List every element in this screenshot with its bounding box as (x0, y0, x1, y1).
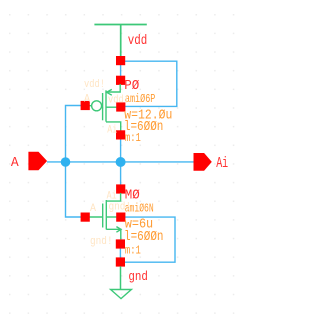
P0 gate bar (102, 93, 104, 120)
P0 bulk lead (106, 106, 117, 108)
P0 channel bar (105, 90, 107, 121)
ground (120, 266, 122, 289)
pin square: PMOS gate (81, 101, 90, 110)
pin square: NMOS bulk (116, 213, 125, 222)
wire: NMOS source to gnd square (119, 244, 121, 262)
M0 bulk lead (106, 216, 117, 218)
svg-text:m:1: m:1 (125, 243, 141, 257)
wire: A pin to junctions row (47, 161, 194, 163)
M0 gate lead (85, 216, 103, 218)
wire: output junction to NMOS drain (120, 162, 122, 189)
pin square: gnd connection (116, 257, 125, 266)
svg-text:A: A (84, 93, 90, 105)
wire: PMOS drain to output junction (120, 135, 122, 162)
pin square: PMOS bulk (116, 102, 125, 111)
P0 source arrow (107, 89, 112, 95)
svg-text:Ai: Ai (107, 190, 117, 202)
M0 gate bar (102, 204, 104, 228)
svg-text:vdd!: vdd! (84, 79, 105, 91)
node Ai output pin (194, 153, 212, 171)
wire: NMOS bulk loop to gnd (120, 217, 175, 262)
svg-text:vdd: vdd (128, 33, 148, 49)
transistor P0 (PMOS) symbol (85, 84, 121, 131)
vdd rail (94, 24, 146, 26)
svg-text:gnd!: gnd! (90, 236, 113, 248)
wire: left gate branch (66, 106, 85, 218)
node: left junction (61, 157, 71, 167)
P0 gate lead (85, 105, 92, 107)
wire: PMOS bulk loop to vdd (121, 61, 177, 106)
M0 source stub (106, 229, 121, 239)
pin square: PMOS source (116, 76, 125, 85)
svg-text:gnd: gnd (128, 270, 148, 284)
M0 drain stub (106, 193, 120, 201)
M0 source arrow (116, 227, 121, 233)
svg-text:Ai: Ai (107, 124, 117, 136)
svg-text:A: A (11, 156, 20, 171)
svg-text:gnd!: gnd! (109, 202, 132, 214)
P0 drain stub (106, 122, 121, 131)
pin square: NMOS gate (81, 213, 90, 222)
svg-text:amiØ6P: amiØ6P (125, 92, 155, 106)
svg-text:Ai: Ai (216, 155, 228, 172)
M0 channel bar (105, 200, 107, 230)
svg-text:A: A (90, 203, 96, 215)
svg-text:vdd!: vdd! (108, 94, 129, 106)
svg-text:m:1: m:1 (125, 131, 141, 145)
P0 gate bubble (92, 101, 102, 111)
pin square: NMOS source (116, 239, 125, 248)
wire: vdd square to PMOS source square (120, 61, 122, 81)
P0 source stub (106, 84, 120, 92)
transistor M0 (NMOS) symbol (85, 193, 121, 239)
pin square: NMOS drain (116, 184, 125, 193)
node: right junction (116, 157, 126, 167)
pin square: vdd connection (116, 56, 125, 65)
pin square: PMOS drain (116, 130, 125, 139)
node A input pin (28, 152, 47, 170)
